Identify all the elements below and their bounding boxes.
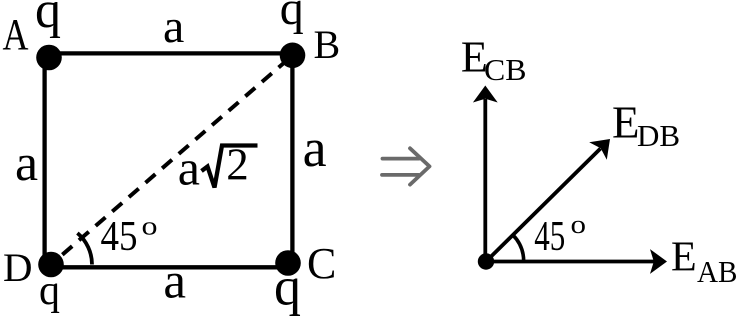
svg-text:C: C (307, 239, 336, 288)
svg-text:q: q (39, 268, 60, 314)
vector E_DB shaft (486, 149, 601, 262)
svg-text:a: a (303, 118, 327, 178)
svg-text:E: E (671, 235, 697, 281)
angle arc right (513, 235, 524, 262)
angle arc at D (77, 233, 92, 264)
svg-text:q: q (280, 0, 304, 35)
svg-text:a: a (163, 253, 186, 309)
svg-text:q: q (35, 0, 61, 39)
svg-text:45: 45 (101, 214, 138, 260)
svg-text:CB: CB (484, 52, 527, 87)
svg-text:45: 45 (534, 214, 565, 260)
implies arrow (gray double arrow) (382, 148, 430, 184)
svg-text:o: o (571, 210, 587, 239)
svg-text:D: D (3, 245, 33, 290)
svg-text:B: B (314, 22, 341, 67)
svg-text:o: o (142, 212, 158, 241)
charge dot D (38, 252, 64, 278)
vector E_AB head (650, 249, 667, 274)
vector E_DB head (589, 139, 610, 160)
svg-text:a: a (163, 0, 184, 53)
vector E_AB shaft (486, 260, 654, 264)
svg-text:a: a (15, 135, 38, 192)
svg-text:DB: DB (637, 118, 680, 153)
svg-text:E: E (612, 98, 640, 148)
svg-text:2: 2 (226, 140, 249, 190)
vector E_CB shaft (483, 99, 487, 262)
label a sqrt2 : radical and overbar (202, 146, 258, 188)
square ABCD outline (45, 53, 293, 267)
dashed diagonal DB (51, 56, 293, 265)
charge dot A (36, 45, 62, 71)
charge dot C (275, 250, 301, 276)
svg-text:a: a (178, 139, 200, 195)
origin dot of vector diagram (478, 253, 494, 269)
charge dot B (280, 43, 306, 69)
svg-text:A: A (3, 10, 29, 59)
svg-text:AB: AB (697, 254, 738, 289)
vector E_CB head (473, 86, 498, 103)
svg-text:q: q (274, 257, 301, 317)
